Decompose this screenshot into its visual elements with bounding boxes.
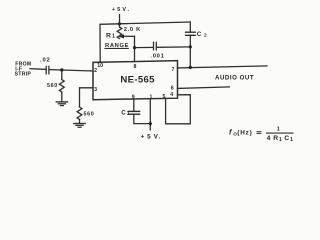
svg-text:.: . — [159, 133, 161, 140]
svg-text:7: 7 — [172, 67, 175, 73]
svg-text:C: C — [121, 109, 126, 116]
svg-text:R: R — [106, 33, 111, 40]
svg-text:C: C — [284, 135, 289, 142]
svg-text:1: 1 — [277, 127, 280, 133]
svg-text:.001: .001 — [150, 54, 164, 60]
svg-text:6: 6 — [171, 86, 174, 92]
svg-text:560: 560 — [47, 83, 58, 89]
svg-text:8: 8 — [134, 64, 137, 70]
svg-text:z: z — [246, 130, 249, 137]
svg-text:C: C — [197, 31, 202, 38]
svg-text:R: R — [273, 135, 278, 142]
svg-text:5: 5 — [163, 94, 166, 100]
svg-text:1: 1 — [150, 94, 153, 100]
svg-text:NE-565: NE-565 — [120, 75, 155, 86]
svg-text:STRIP: STRIP — [15, 72, 32, 78]
svg-text:1: 1 — [127, 111, 130, 117]
svg-text:3: 3 — [94, 87, 97, 93]
svg-text:4: 4 — [170, 92, 173, 98]
svg-text:+5V.: +5V. — [112, 7, 131, 13]
svg-text:560: 560 — [84, 112, 95, 118]
svg-text:.02: .02 — [40, 57, 51, 63]
svg-text:10: 10 — [97, 63, 103, 69]
svg-text:9: 9 — [132, 94, 135, 100]
svg-text:4: 4 — [267, 135, 271, 142]
svg-text:RANGE: RANGE — [105, 43, 129, 49]
svg-text:1: 1 — [279, 137, 282, 143]
svg-text:1: 1 — [290, 137, 293, 143]
svg-text:+5V: +5V — [141, 133, 161, 140]
svg-text:AUDIO OUT: AUDIO OUT — [215, 74, 254, 81]
svg-text:H: H — [240, 130, 245, 137]
svg-text:): ) — [250, 130, 252, 137]
svg-text:2: 2 — [94, 68, 97, 74]
svg-text:2.0 K: 2.0 K — [124, 27, 141, 33]
svg-text:2: 2 — [204, 33, 207, 39]
svg-text:1: 1 — [112, 34, 115, 40]
